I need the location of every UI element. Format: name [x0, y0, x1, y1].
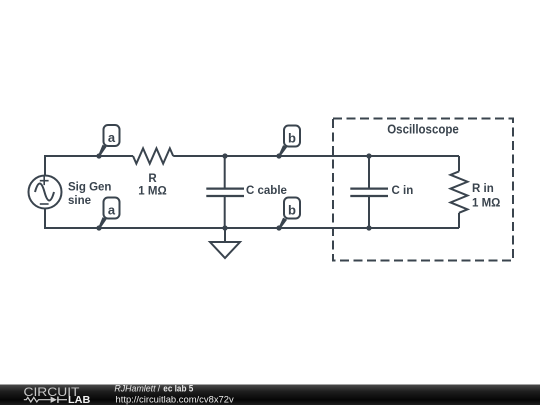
svg-text:sine: sine — [68, 195, 91, 207]
node flag a (bottom) — [98, 198, 119, 230]
junction C in top — [366, 153, 371, 158]
node flag b (top) — [278, 126, 300, 157]
junction node b top — [276, 153, 281, 158]
svg-text:b: b — [288, 203, 296, 218]
svg-text:ec lab 5: ec lab 5 — [163, 383, 193, 393]
resistor R — [133, 148, 173, 163]
svg-text:a: a — [108, 203, 116, 218]
resistor R in — [451, 156, 468, 228]
node flag a (top) — [98, 125, 119, 157]
voltage source V1 Sig Gen sine — [29, 176, 62, 209]
oscilloscope enclosure (dashed) — [333, 119, 513, 261]
logo diode — [51, 397, 57, 403]
junction node b bottom — [276, 225, 281, 230]
node flag b (bottom) — [278, 198, 300, 230]
capacitor C cable — [206, 156, 244, 228]
wire: top rail left segment (source to R) — [45, 156, 133, 176]
junction ground / C cable bottom — [222, 225, 227, 230]
svg-text:a: a — [108, 130, 116, 145]
junction C cable top — [222, 153, 227, 158]
wire: top rail right segment (R to R in) — [173, 155, 459, 157]
logo resistor zigzag — [24, 397, 51, 402]
svg-text:1 MΩ: 1 MΩ — [138, 186, 166, 198]
capacitor C in — [350, 156, 388, 228]
svg-text:RJHamlett: RJHamlett — [114, 383, 156, 393]
svg-text:http://circuitlab.com/cv8x72v: http://circuitlab.com/cv8x72v — [116, 394, 234, 405]
junction node a bottom — [96, 225, 101, 230]
svg-text:LAB: LAB — [68, 395, 90, 405]
svg-text:Sig Gen: Sig Gen — [68, 182, 111, 194]
ground — [210, 228, 240, 258]
footer bar — [0, 385, 540, 405]
svg-text:R in: R in — [472, 183, 494, 195]
svg-text:b: b — [288, 131, 296, 146]
svg-text:C cable: C cable — [246, 185, 287, 197]
junction C in bottom — [366, 225, 371, 230]
junction node a top — [96, 153, 101, 158]
wire: bottom rail — [45, 209, 459, 228]
svg-text:C in: C in — [392, 185, 414, 197]
svg-text:R: R — [148, 173, 157, 185]
svg-text:Oscilloscope: Oscilloscope — [387, 122, 459, 137]
svg-text:1 MΩ: 1 MΩ — [472, 198, 500, 210]
